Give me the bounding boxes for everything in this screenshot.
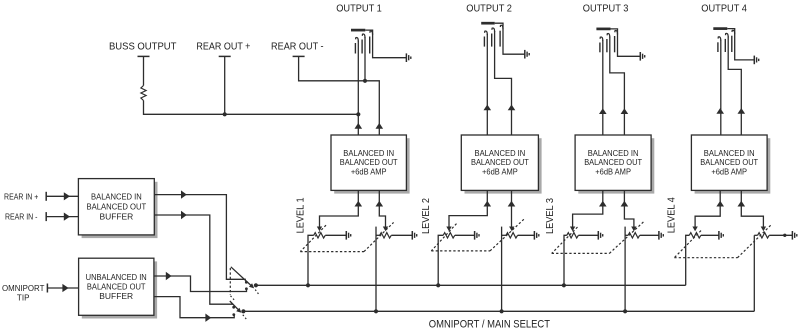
arrow into amp U4 input +	[716, 201, 724, 207]
op-amp block U3 BALANCED IN BALANCED OUT +6dB AMP	[578, 138, 654, 193]
jack J4 sleeve contact	[732, 30, 735, 34]
jack J1 OUTPUT 1 plug bar	[351, 29, 365, 32]
wire amp U1 input - from level pot VR1b	[379, 190, 385, 227]
svg-text:REAR OUT +: REAR OUT +	[196, 42, 250, 53]
wire VR2a right terminal to ground	[455, 234, 475, 236]
potentiometer VR1b wiper arrow	[383, 227, 388, 232]
arrow amp U1 output + into jack	[355, 123, 363, 129]
svg-text:BALANCED IN: BALANCED IN	[91, 191, 142, 201]
jack J4 tip contact	[718, 37, 721, 41]
svg-text:UNBALANCED IN: UNBALANCED IN	[86, 272, 147, 282]
svg-text:REAR IN +: REAR IN +	[4, 192, 39, 201]
potentiometer VR3a wiper arrow	[570, 227, 575, 232]
arrow into amp U3 input -	[621, 201, 629, 207]
potentiometer VR2b resistor	[506, 233, 518, 238]
node bus + tap channel 1	[306, 283, 310, 287]
jack J1 ring contact	[362, 34, 365, 38]
svg-text:OMNIPORT: OMNIPORT	[2, 284, 45, 293]
switch S1 pole arm	[231, 267, 251, 286]
arrow into amp U4 input -	[738, 201, 746, 207]
node bus - tap channel 3	[623, 309, 627, 313]
potentiometer VR2a resistor	[443, 233, 455, 238]
node bus - tap channel 2	[500, 309, 504, 313]
wire VR4b right terminal to ground	[769, 234, 792, 236]
arrow omniport buffer output +	[166, 272, 172, 280]
node junction REAR OUT + / buss	[223, 112, 227, 116]
wire jack J4 ring jog to amp U4 output -	[728, 36, 741, 135]
arrow amp U3 output + into jack	[599, 108, 607, 114]
potentiometer VR3a resistor	[567, 233, 579, 238]
wire VR3b right terminal to ground	[640, 234, 659, 236]
node on VR4b ground lead	[783, 234, 786, 237]
wire bus - (level feed) from S2 to channel 4	[243, 310, 754, 312]
ground VR2b	[533, 231, 535, 240]
terminal tick REAR IN +	[45, 192, 47, 201]
jack J1 sleeve contact	[370, 31, 373, 35]
op-amp block U4 BALANCED IN BALANCED OUT +6dB AMP	[695, 138, 771, 193]
jack J3 sleeve contact	[615, 31, 618, 35]
wire VR4a left terminal to bus	[686, 235, 690, 285]
ground VR3b	[658, 231, 660, 240]
svg-text:BUFFER: BUFFER	[99, 291, 133, 301]
arrow into amp U2 input -	[508, 201, 516, 207]
potentiometer VR4a wiper arrow	[692, 227, 697, 232]
wire VR1b right terminal to ground	[391, 234, 412, 236]
wire VR4a right terminal to ground	[701, 234, 719, 236]
switch S2 contact 1 (rear)	[232, 306, 235, 309]
svg-text:OMNIPORT / MAIN SELECT: OMNIPORT / MAIN SELECT	[429, 319, 551, 331]
arrow omniport buffer output -	[205, 314, 211, 322]
svg-text:REAR IN -: REAR IN -	[5, 213, 38, 222]
wire omniport buffer output - to switch S2	[154, 297, 234, 318]
terminal tick OMNIPORT TIP	[46, 284, 48, 293]
wire bus + (level feed) from S1 to channel 4	[256, 284, 686, 286]
dashed gang link S1-S2	[229, 268, 231, 295]
wire jack J1 tip down to amp U1 output +	[357, 41, 359, 136]
switch S2 contact 2 (omniport)	[232, 313, 235, 316]
ground VR3a	[597, 231, 599, 240]
potentiometer VR4b wiper arrow	[761, 227, 766, 232]
jack J4 sleeve wire to chassis ground	[727, 29, 754, 60]
jack J4 OUTPUT 4 plug bar	[713, 27, 727, 30]
svg-text:+6dB AMP: +6dB AMP	[351, 166, 387, 176]
wire VR4b left terminal to bus	[754, 234, 757, 236]
terminal tick BUSS OUTPUT	[138, 55, 150, 57]
jack J2 sleeve contact	[500, 25, 503, 29]
wire OMNIPORT TIP to buffer	[47, 287, 78, 289]
dashed gang link VR2a-VR2b	[431, 224, 456, 251]
svg-text:+6dB AMP: +6dB AMP	[595, 166, 631, 176]
wire amp U2 input + from level pot VR2a	[449, 190, 487, 227]
potentiometer VR1a wiper arrow	[317, 227, 322, 232]
switch S1 contact 1 (rear)	[245, 281, 248, 284]
svg-text:LEVEL 4: LEVEL 4	[667, 197, 678, 233]
svg-text:LEVEL 1: LEVEL 1	[295, 197, 306, 233]
svg-text:OUTPUT 3: OUTPUT 3	[583, 4, 629, 15]
potentiometer VR3b resistor	[628, 233, 640, 238]
op-amp block U1 BALANCED IN BALANCED OUT +6dB AMP	[334, 138, 409, 193]
wire VR3a right terminal to ground	[578, 234, 598, 236]
chassis ground jack J4	[753, 56, 755, 65]
wire VR1a right terminal to ground	[325, 234, 346, 236]
dashed gang link VR1a-VR1b	[300, 225, 326, 251]
wire REAR IN + to buffer	[46, 195, 78, 197]
arrow amp U1 output - into jack	[376, 123, 384, 129]
chassis ground jack J1	[405, 53, 407, 62]
arrow amp U2 output - into jack	[508, 105, 516, 111]
arrow into amp U3 input +	[599, 201, 607, 207]
wire VR2b left terminal to bus	[502, 234, 506, 236]
wire VR3b left terminal to bus	[625, 234, 628, 236]
node bus - tap channel 1	[374, 309, 378, 313]
potentiometer VR2a wiper arrow	[446, 227, 451, 232]
arrow amp U4 output - into jack	[738, 108, 746, 114]
wire amp U2 input - from level pot VR2b	[511, 190, 513, 227]
buffer block U6 UNBALANCED IN BALANCED OUT BUFFER	[82, 261, 157, 318]
node bus + tap channel 3	[562, 283, 566, 287]
arrow amp U4 output + into jack	[716, 108, 724, 114]
node switch S1 common	[254, 283, 258, 287]
wire jack J2 tip down to amp U2 output +	[486, 34, 488, 135]
dashed gang link VR4a-VR4b	[674, 231, 701, 258]
svg-text:BUSS OUTPUT: BUSS OUTPUT	[109, 42, 177, 53]
potentiometer VR3b wiper arrow	[631, 227, 636, 232]
chassis ground jack J3	[639, 52, 641, 61]
jack J2 tip contact	[485, 31, 488, 35]
potentiometer VR1b resistor	[380, 233, 392, 238]
jack J3 tip contact	[600, 37, 603, 41]
jack J1 sleeve wire to chassis ground	[365, 30, 406, 58]
arrow into amp U2 input +	[484, 201, 492, 207]
potentiometer VR2b wiper arrow	[509, 227, 514, 232]
svg-text:BUFFER: BUFFER	[100, 212, 134, 222]
ground VR2a	[474, 231, 476, 240]
jack J3 sleeve wire to chassis ground	[611, 29, 641, 56]
svg-text:OUTPUT 1: OUTPUT 1	[336, 4, 382, 15]
wire VR3a left terminal to bus	[564, 235, 567, 285]
arrow rear buffer output -	[181, 211, 187, 219]
wire jack J4 tip down to amp U4 output +	[720, 40, 722, 135]
wire VR2b right terminal to ground	[518, 234, 535, 236]
wire REAR IN - to buffer	[46, 216, 78, 218]
terminal tick REAR OUT -	[293, 55, 305, 57]
jack J3 OUTPUT 3 plug bar	[596, 28, 610, 31]
wire rear buffer output + to switch S1	[154, 195, 246, 280]
switch S2 pole arm	[230, 301, 240, 311]
wire VR1a left terminal to bus	[308, 235, 314, 285]
wire amp U4 input - from level pot VR4b	[741, 190, 763, 227]
node junction REAR OUT - on jack1 ring wire	[363, 79, 367, 83]
wire VR2a left terminal to bus	[438, 235, 443, 285]
jack J3 ring contact	[607, 34, 610, 38]
wire BUSS OUTPUT down to resistor	[143, 56, 145, 85]
wire omniport buffer output + to switch S1	[154, 276, 247, 292]
potentiometer VR1a resistor	[314, 233, 326, 238]
ground VR1a	[345, 231, 347, 240]
wire REAR OUT + down	[224, 56, 226, 114]
svg-text:LEVEL 3: LEVEL 3	[545, 198, 556, 234]
ground VR4b	[791, 231, 793, 240]
terminal tick REAR OUT +	[219, 55, 231, 57]
jack J2 OUTPUT 2 plug bar	[481, 22, 495, 25]
arrow rear buffer output +	[181, 190, 187, 198]
svg-text:REAR OUT -: REAR OUT -	[271, 42, 324, 53]
wire jack J3 ring jog to amp U3 output -	[610, 37, 625, 136]
chassis ground jack J2	[524, 50, 526, 59]
svg-text:OUTPUT 2: OUTPUT 2	[466, 4, 512, 15]
wire jack J1 ring down to REAR OUT - junction	[364, 37, 366, 81]
jack J2 sleeve wire to chassis ground	[495, 23, 525, 54]
wire VR1b left terminal to bus	[376, 234, 380, 236]
terminal tick REAR IN -	[45, 212, 47, 221]
wire amp U3 input + from level pot VR3a	[573, 190, 603, 227]
svg-text:+6dB AMP: +6dB AMP	[482, 166, 518, 176]
wire rear buffer output - to switch S2	[154, 215, 233, 304]
ground VR1b	[411, 231, 413, 240]
resistor R1 buss build-out	[141, 86, 146, 101]
wire amp U1 input + from level pot VR1a	[320, 190, 359, 227]
potentiometer VR4b resistor	[758, 233, 770, 238]
ground VR4a	[718, 231, 720, 240]
arrow REAR IN -	[64, 213, 70, 221]
wire REAR OUT - to jack1 ring	[299, 56, 380, 135]
svg-text:OUTPUT 4: OUTPUT 4	[701, 4, 747, 15]
svg-text:BALANCED OUT: BALANCED OUT	[87, 201, 147, 211]
wire amp U4 input + from level pot VR4a	[695, 190, 720, 227]
arrow into amp U1 input +	[355, 201, 363, 207]
arrow OMNIPORT TIP	[62, 284, 68, 292]
buffer block U5 BALANCED IN BALANCED OUT BUFFER	[82, 182, 158, 238]
arrow amp U2 output + into jack	[484, 105, 492, 111]
svg-text:+6dB AMP: +6dB AMP	[711, 166, 747, 176]
jack J2 ring contact	[492, 28, 495, 32]
switch S1 contact 2 (omniport)	[245, 287, 248, 290]
op-amp block U2 BALANCED IN BALANCED OUT +6dB AMP	[465, 138, 542, 193]
wire jack J3 tip down to amp U3 output +	[602, 40, 604, 135]
wire amp U3 input - from level pot VR3b	[624, 190, 634, 227]
node switch S2 common	[241, 309, 245, 313]
arrow REAR IN +	[64, 192, 70, 200]
jack J1 tip contact	[356, 38, 359, 42]
wire resistor to main-out bus	[144, 101, 359, 115]
dashed gang link VR3a-VR3b	[552, 227, 578, 253]
svg-text:LEVEL 2: LEVEL 2	[421, 198, 432, 234]
arrow amp U3 output - into jack	[621, 108, 629, 114]
potentiometer VR4a resistor	[689, 233, 701, 238]
node bus + tap channel 2	[436, 283, 440, 287]
svg-text:BALANCED OUT: BALANCED OUT	[87, 281, 146, 291]
svg-text:TIP: TIP	[17, 294, 30, 303]
wire jack J2 ring jog to amp U2 output -	[495, 31, 512, 135]
jack J4 ring contact	[726, 33, 729, 37]
node junction main-out + on jack1 tip wire	[356, 112, 360, 116]
arrow into amp U1 input -	[376, 201, 384, 207]
